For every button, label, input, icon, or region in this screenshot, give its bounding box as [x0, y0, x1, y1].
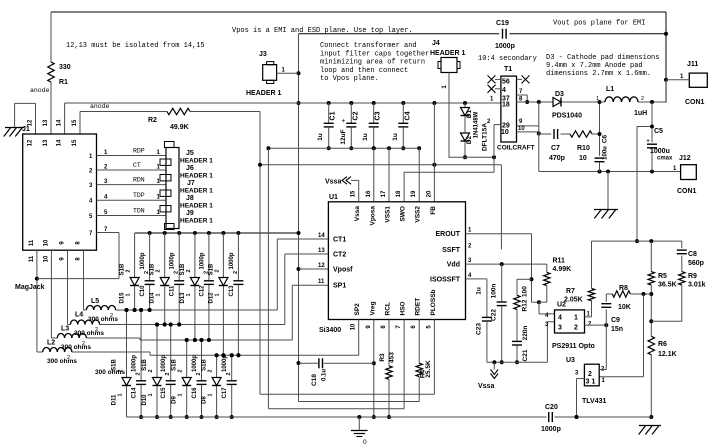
U1 left pin 14 CT1: [318, 233, 346, 244]
wire L3 to line3: [86, 338, 292, 342]
capacitor C11: [170, 233, 185, 327]
svg-text:2: 2: [95, 327, 98, 333]
resistor R6: [648, 336, 677, 419]
capacitor C13: [229, 233, 244, 357]
capacitor C6: [595, 100, 609, 172]
svg-text:D1: D1: [466, 109, 473, 118]
U1 bottom pin 6 RDET: [411, 298, 422, 329]
svg-text:1: 1: [596, 96, 599, 102]
svg-text:1000p: 1000p: [170, 252, 176, 269]
J1 top pin 13: [43, 119, 49, 146]
U1 bottom pin 5 PLOSSb: [426, 289, 437, 328]
svg-text:Vposa: Vposa: [369, 206, 376, 226]
svg-text:10: 10: [518, 126, 525, 132]
svg-text:2: 2: [208, 369, 214, 372]
J1 top pin 12: [28, 119, 34, 146]
inductor L4: [68, 312, 105, 338]
svg-text:1000p: 1000p: [541, 426, 561, 433]
svg-text:R12: R12: [522, 299, 529, 311]
svg-text:R7: R7: [566, 288, 575, 295]
svg-text:14: 14: [57, 119, 63, 126]
diode D2: [461, 123, 489, 160]
svg-text:HEADER 1: HEADER 1: [180, 173, 213, 180]
svg-text:10: 10: [43, 239, 49, 246]
svg-text:10:4 secondary: 10:4 secondary: [478, 55, 537, 63]
svg-text:TDN: TDN: [133, 208, 145, 215]
svg-text:S1B: S1B: [142, 358, 148, 370]
wire RDET net: [268, 148, 419, 409]
svg-text:S1B: S1B: [202, 358, 208, 370]
svg-text:2: 2: [156, 269, 162, 272]
diode D13: [180, 233, 200, 342]
svg-text:12: 12: [28, 139, 34, 146]
svg-text:J5: J5: [186, 150, 194, 157]
svg-text:2: 2: [196, 372, 202, 375]
svg-text:C21: C21: [522, 349, 529, 361]
svg-text:12: 12: [318, 263, 325, 269]
wire anode net pin14: [65, 97, 501, 135]
svg-text:1: 1: [148, 393, 154, 396]
svg-text:J9: J9: [186, 210, 194, 217]
svg-text:1u: 1u: [392, 133, 399, 141]
wire J1 pin12 loop: [15, 103, 36, 134]
svg-text:CT1: CT1: [333, 237, 346, 244]
svg-text:C9: C9: [611, 317, 620, 324]
svg-text:1u: 1u: [317, 133, 324, 141]
svg-text:4: 4: [502, 87, 506, 94]
svg-text:C15: C15: [161, 387, 167, 399]
svg-text:100u: 100u: [603, 146, 609, 160]
T1 pin 2 9 row: [487, 119, 539, 130]
svg-text:15: 15: [351, 190, 357, 197]
svg-text:ISOSSFT: ISOSSFT: [430, 276, 461, 283]
svg-text:VSS2: VSS2: [415, 206, 422, 223]
U1 right pin 3 Vdd: [447, 258, 472, 269]
wire U3 pin2: [599, 369, 606, 371]
U1 bottom pin 7 HSO: [396, 301, 407, 328]
svg-text:1: 1: [156, 293, 162, 296]
op-amp U3 box: [566, 357, 606, 405]
svg-text:R8: R8: [619, 285, 628, 292]
svg-text:2: 2: [67, 355, 70, 361]
svg-text:15n: 15n: [611, 326, 623, 333]
capacitor C22: [491, 264, 507, 364]
wire pin10 down: [50, 250, 52, 338]
U1 right pin 2 SSFT: [442, 243, 472, 254]
svg-text:VSS1: VSS1: [385, 206, 392, 223]
svg-text:12,13 must be isolated from 14: 12,13 must be isolated from 14,15: [66, 42, 205, 50]
svg-text:D2: D2: [466, 135, 473, 144]
wire net RDP: [97, 148, 167, 157]
wire pin16 riser: [373, 148, 375, 202]
U1 top pin 17 VSS1: [381, 190, 392, 223]
svg-text:SWO: SWO: [400, 206, 407, 222]
svg-text:cmax: cmax: [657, 156, 673, 162]
note D3 pad dims: [546, 54, 659, 78]
svg-text:Connect transformer and: Connect transformer and: [320, 42, 417, 50]
svg-text:18: 18: [396, 190, 402, 197]
capacitor C3: [362, 103, 382, 150]
capacitor C23: [466, 279, 492, 362]
svg-text:U3: U3: [566, 357, 575, 364]
svg-text:input filter caps together: input filter caps together: [320, 50, 429, 58]
svg-text:2: 2: [641, 96, 644, 102]
svg-text:2: 2: [148, 369, 154, 372]
ground at J1: [4, 103, 24, 136]
svg-text:1u: 1u: [476, 287, 483, 295]
svg-text:1000p: 1000p: [199, 252, 205, 269]
T1 pin 1 8 row: [502, 97, 553, 109]
svg-text:12.1K: 12.1K: [658, 351, 677, 358]
resistor R8: [606, 285, 651, 311]
svg-text:Vreg: Vreg: [369, 301, 376, 315]
svg-text:1uH: 1uH: [634, 110, 647, 117]
capacitor C8: [677, 241, 704, 272]
svg-text:13: 13: [43, 119, 49, 126]
connector J1 MagJack: [22, 126, 97, 250]
svg-text:CT2: CT2: [333, 252, 346, 259]
svg-text:0.1u: 0.1u: [322, 369, 328, 381]
wire Vout right: [665, 80, 667, 102]
svg-text:C3: C3: [375, 111, 382, 120]
svg-text:D3: D3: [555, 91, 564, 98]
label J6: [180, 165, 213, 180]
svg-text:Si3400: Si3400: [319, 327, 341, 334]
svg-text:300 ohms: 300 ohms: [95, 369, 125, 376]
svg-text:2: 2: [174, 271, 180, 274]
wire pin11 down: [35, 250, 39, 352]
svg-text:2: 2: [178, 369, 184, 372]
svg-text:HEADER 1: HEADER 1: [180, 158, 213, 165]
svg-text:10: 10: [43, 255, 49, 262]
U1 top pin 16 Vposa: [366, 190, 377, 226]
resistor R4: [416, 320, 432, 379]
svg-text:C10: C10: [140, 285, 146, 297]
diode D3: [552, 91, 600, 120]
svg-text:RDN: RDN: [133, 177, 145, 184]
wire EROUT net: [466, 234, 542, 305]
svg-text:C5: C5: [654, 128, 663, 135]
svg-text:PS2911 Opto: PS2911 Opto: [552, 343, 595, 350]
svg-text:11: 11: [29, 239, 35, 246]
U1 left pin 13 CT2: [318, 248, 346, 259]
diode D9: [172, 338, 192, 419]
svg-text:2: 2: [233, 271, 239, 274]
diode D8: [202, 353, 222, 419]
svg-text:HEADER 1: HEADER 1: [180, 218, 213, 225]
wire Vssa stub top: [351, 180, 359, 201]
svg-text:DFLT15A: DFLT15A: [482, 123, 489, 151]
wire Vdd net: [466, 262, 547, 266]
svg-text:HEADER 1: HEADER 1: [180, 203, 213, 210]
svg-text:PLOSSb: PLOSSb: [430, 289, 437, 315]
T1 pin 5 6 row: [488, 75, 530, 85]
wire SP1 riser: [292, 285, 328, 340]
diode D1: [461, 103, 480, 138]
svg-text:RDET: RDET: [415, 298, 422, 316]
Vssa arrow top: [325, 177, 351, 186]
svg-text:560p: 560p: [688, 260, 704, 267]
wire net CT: [97, 162, 167, 171]
wire anode net pin15: [80, 112, 167, 135]
svg-text:2: 2: [588, 371, 592, 378]
svg-text:1N4148W: 1N4148W: [474, 111, 480, 138]
wire bottom rail: [127, 415, 652, 419]
svg-text:1000p: 1000p: [161, 355, 167, 372]
svg-text:CON1: CON1: [677, 188, 697, 195]
svg-text:SSFT: SSFT: [442, 247, 461, 254]
wire HSO net: [268, 320, 404, 409]
svg-text:R6: R6: [658, 341, 667, 348]
svg-text:R5: R5: [658, 273, 667, 280]
diode D12: [208, 233, 228, 357]
inductor L3: [51, 326, 91, 352]
svg-text:12: 12: [28, 119, 34, 126]
connector J4: [430, 40, 466, 158]
resistor R9: [651, 272, 705, 322]
resistor R2: [148, 108, 260, 131]
svg-text:1: 1: [118, 393, 124, 396]
svg-text:Vssa: Vssa: [354, 206, 361, 222]
svg-text:2: 2: [126, 269, 132, 272]
svg-text:2.05K: 2.05K: [564, 297, 583, 304]
label J9: [180, 210, 213, 225]
svg-text:J6: J6: [186, 165, 194, 172]
capacitor C12: [199, 233, 214, 342]
svg-text:R10: R10: [577, 145, 590, 152]
ground bottom center: [351, 417, 368, 446]
resistor R10: [570, 131, 600, 162]
svg-text:HSO: HSO: [400, 301, 407, 315]
U1 bottom pin 9 Vreg: [366, 301, 377, 328]
capacitor C9: [601, 294, 623, 370]
svg-text:C20: C20: [545, 404, 558, 411]
svg-text:TDP: TDP: [133, 192, 145, 199]
svg-text:1: 1: [186, 293, 192, 296]
svg-text:SP1: SP1: [333, 283, 346, 290]
wire pin19 riser: [418, 148, 420, 202]
svg-text:RCL: RCL: [385, 302, 392, 315]
T1 pin 10 row: [501, 126, 541, 136]
wire U3 pin3: [575, 379, 585, 420]
U1 bottom pin 10 SP2: [351, 303, 362, 331]
diode D14: [150, 233, 170, 327]
resistor R5: [648, 241, 677, 336]
capacitor C15: [161, 323, 176, 420]
wire top net from R1 to output plane: [51, 11, 666, 13]
svg-text:J3: J3: [259, 51, 267, 58]
svg-text:minimizing area of return: minimizing area of return: [320, 59, 425, 67]
capacitor C10: [140, 233, 155, 312]
J1 right pin 7: [89, 227, 108, 237]
svg-text:17: 17: [381, 190, 387, 197]
capacitor C16: [192, 338, 207, 419]
op-amp U2 box: [545, 302, 595, 351]
svg-text:2: 2: [110, 313, 113, 319]
wire switch node: [449, 125, 496, 173]
svg-text:4.99K: 4.99K: [553, 266, 572, 273]
svg-text:J12: J12: [679, 155, 691, 162]
svg-text:9.4mm x 7.2mm Anode pad: 9.4mm x 7.2mm Anode pad: [546, 62, 643, 70]
J1 bottom pin 9: [60, 241, 66, 261]
capacitor C20: [541, 404, 561, 433]
svg-text:C4: C4: [404, 111, 411, 120]
svg-text:SP2: SP2: [354, 303, 361, 316]
label anode left: [30, 87, 50, 94]
svg-text:R2: R2: [148, 117, 157, 124]
svg-text:PDS1040: PDS1040: [552, 113, 582, 120]
svg-text:C6: C6: [602, 134, 609, 143]
svg-text:14: 14: [318, 233, 325, 239]
diode D10: [142, 323, 162, 420]
diode D15: [120, 233, 140, 312]
note connect transformer: [320, 42, 429, 83]
capacitor C2: [340, 103, 360, 150]
svg-text:100n: 100n: [491, 284, 498, 299]
svg-text:4: 4: [558, 315, 562, 322]
wire C19 net: [299, 33, 667, 35]
wire SP2 net: [358, 320, 360, 356]
wire Vssa rail: [487, 360, 548, 364]
U1 right pin 4 ISOSSFT: [430, 273, 472, 284]
svg-text:L3: L3: [61, 326, 69, 333]
wire Vreg net: [372, 320, 376, 420]
svg-text:1: 1: [214, 293, 220, 296]
svg-text:3: 3: [586, 379, 590, 386]
svg-text:13: 13: [318, 248, 325, 254]
T1 pin 3 7 row: [502, 89, 529, 104]
J1 right pin 4: [89, 195, 108, 205]
svg-text:EROUT: EROUT: [436, 231, 461, 238]
svg-text:C22: C22: [491, 309, 498, 321]
U1 bottom pin 8 RCL: [381, 302, 392, 329]
U1 left pin 11 SP1: [318, 279, 346, 290]
label extra 300 ohms: [95, 369, 125, 376]
svg-text:1000p: 1000p: [140, 252, 146, 269]
capacitor C18: [299, 358, 374, 386]
U1 top pin 19 VSS2: [411, 190, 422, 223]
svg-text:HEADER 1: HEADER 1: [180, 188, 213, 195]
op-amp U1 box: [319, 194, 466, 334]
svg-text:Vout pos plane for EMI: Vout pos plane for EMI: [553, 20, 645, 28]
svg-text:1: 1: [592, 379, 596, 386]
J1 bottom pin 8: [76, 241, 82, 261]
svg-text:100: 100: [522, 286, 529, 297]
svg-text:Vssa: Vssa: [325, 179, 341, 186]
svg-text:L2: L2: [47, 340, 55, 347]
svg-text:J7: J7: [187, 180, 195, 187]
svg-text:C8: C8: [688, 251, 697, 258]
svg-text:+: +: [341, 118, 345, 125]
capacitor C1: [317, 103, 337, 150]
svg-text:CON1: CON1: [685, 99, 705, 106]
svg-text:RDP: RDP: [133, 148, 145, 155]
svg-text:R11: R11: [553, 258, 566, 265]
J1 bottom pin 11: [29, 239, 35, 262]
capacitor C14: [132, 308, 147, 419]
svg-text:14: 14: [57, 139, 63, 146]
svg-text:1: 1: [574, 315, 578, 322]
label J8: [180, 195, 213, 210]
svg-text:C16: C16: [192, 387, 198, 399]
wire pin9 down: [67, 250, 69, 324]
resistor R12: [514, 279, 532, 341]
svg-text:loop and then connect: loop and then connect: [320, 67, 408, 75]
U1 right pin 1 EROUT: [436, 228, 473, 239]
svg-text:15: 15: [72, 139, 78, 146]
inductor L2: [37, 340, 77, 366]
svg-text:19: 19: [411, 190, 417, 197]
svg-text:300 ohms: 300 ohms: [61, 344, 91, 351]
wire pin8 down: [83, 250, 85, 310]
wire vertical Vpos trunk: [297, 34, 301, 363]
diode D11: [112, 308, 132, 417]
svg-text:15: 15: [72, 119, 78, 126]
svg-text:13: 13: [43, 139, 49, 146]
connector J11: [666, 61, 707, 106]
label J5: [180, 150, 213, 165]
J1 bottom pin 10: [43, 239, 49, 262]
svg-text:18: 18: [502, 102, 510, 109]
wire U2 pin3 drop: [547, 322, 554, 363]
svg-text:FB: FB: [430, 206, 437, 215]
wire Vout sense drop: [635, 127, 639, 244]
svg-text:2: 2: [186, 269, 192, 272]
wire T1 secondary down: [539, 102, 681, 174]
inductor L5: [84, 298, 119, 323]
svg-text:anode: anode: [90, 103, 110, 110]
svg-text:49.9K: 49.9K: [170, 124, 189, 131]
svg-text:S1B: S1B: [172, 358, 178, 370]
J1 top pin 15: [72, 119, 78, 146]
svg-text:R9: R9: [688, 273, 697, 280]
wire divider top: [592, 239, 682, 243]
svg-text:1u: 1u: [362, 133, 369, 141]
svg-text:C17: C17: [222, 387, 228, 399]
svg-text:330: 330: [59, 64, 71, 71]
svg-text:CT: CT: [133, 162, 141, 169]
wire net RDN: [97, 177, 167, 186]
T1 pin 4 row: [488, 85, 507, 94]
label anode right: [90, 103, 110, 110]
svg-text:Vdd: Vdd: [447, 262, 460, 269]
capacitor C17: [222, 353, 237, 419]
resistor R3: [379, 320, 396, 420]
svg-text:C2: C2: [352, 111, 359, 120]
svg-text:J8: J8: [186, 195, 194, 202]
wire CT2 riser: [285, 254, 329, 325]
svg-text:C7: C7: [551, 145, 560, 152]
wire CT1 riser: [277, 239, 328, 310]
wire net TDP: [97, 192, 167, 201]
svg-text:HEADER 1: HEADER 1: [430, 50, 466, 57]
capacitor C7: [539, 129, 570, 162]
svg-text:2: 2: [136, 372, 142, 375]
svg-text:16: 16: [366, 190, 372, 197]
capacitor C5: [637, 102, 673, 172]
svg-text:J4: J4: [432, 40, 440, 47]
wire PLOSSb net: [258, 112, 434, 395]
J1 right pin 2: [89, 165, 108, 175]
svg-text:1000p: 1000p: [192, 355, 198, 372]
wire U2 pin2 out: [585, 323, 609, 327]
svg-text:10: 10: [351, 323, 357, 330]
wire J1 pin7 net: [97, 233, 120, 279]
svg-text:T1: T1: [504, 66, 512, 73]
svg-text:C12: C12: [199, 285, 205, 297]
svg-text:TLV431: TLV431: [582, 398, 606, 405]
svg-text:10: 10: [501, 129, 509, 136]
